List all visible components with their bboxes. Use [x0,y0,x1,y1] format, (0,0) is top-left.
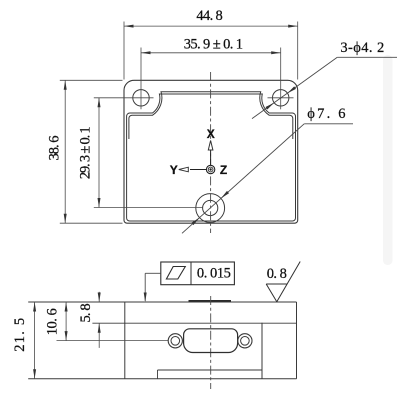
front view right inner wall [261,323,263,379]
dim 10.6 dimension line [65,302,67,341]
svg-text:X: X [207,127,215,141]
flatness symbol (parallelogram) [166,267,185,280]
front view bottom edge [28,378,296,380]
svg-text:Y: Y [170,163,178,177]
top view lid outline [124,80,298,223]
right hole vertical centerline [280,48,282,110]
mounting hole right (phi 4.2) [273,90,289,106]
dim 38.6 extension lines [60,79,123,81]
front view connector centerline ext [57,340,169,342]
DB9 right jackscrew [238,334,252,348]
front view top edge [28,301,296,303]
axis origin symbol [206,165,214,173]
front view right edge [296,302,298,379]
dim 29.3 dimension line [98,98,100,208]
flatness frame [161,262,235,285]
DB9 connector shell [184,329,238,353]
front view top lip [189,300,232,302]
svg-text:38. 6: 38. 6 [47,136,63,161]
dim 21.5 dimension line [34,302,36,379]
svg-text:29. 3 ± 0. 1: 29. 3 ± 0. 1 [78,127,94,180]
front view vertical centerline [210,296,212,389]
dim 38.6 dimension line [64,80,66,223]
front view step line 5.8 [92,322,296,324]
svg-text:0. 8: 0. 8 [267,266,287,282]
left hole vertical centerline [140,48,142,110]
DB9 left jackscrew [168,334,182,348]
X axis arrow [208,141,213,166]
roughness symbol [266,284,277,302]
svg-text:44. 8: 44. 8 [196,8,222,24]
center hole inner [203,200,218,215]
dim 5.8 dimension line [98,292,100,302]
leader 3-phi4.2 line [337,56,397,58]
center hole horizontal centerline [94,207,203,209]
svg-text:Z: Z [220,163,227,177]
top view tab recess outline [129,92,293,139]
Y axis arrow [179,167,207,172]
leader phi7.6 line [304,123,353,125]
svg-text:3-ϕ4. 2: 3-ϕ4. 2 [340,40,384,56]
dim 35.9 dimension line [141,52,281,54]
svg-text:21. 5: 21. 5 [12,317,28,352]
svg-text:10. 6: 10. 6 [45,309,61,336]
vertical centerline top view [210,72,212,233]
svg-text:35. 9 ± 0. 1: 35. 9 ± 0. 1 [184,37,243,53]
svg-text:ϕ7. 6: ϕ7. 6 [307,106,347,122]
center hole counterbore (phi 7.6) [196,194,225,223]
left hole horizontal centerline [94,97,154,99]
dim 44.8 dimension line [124,25,298,27]
dim 44.8 extension lines [123,22,125,80]
flatness leader [145,272,161,274]
right hole horizontal centerline [268,97,294,99]
top view body inner outline [127,94,296,221]
svg-text:5. 8: 5. 8 [78,304,94,323]
mounting hole left (phi 4.2) [133,90,149,106]
front view connector notch [157,370,159,379]
svg-text:0. 015: 0. 015 [197,265,231,281]
front view left inner wall [124,302,126,379]
